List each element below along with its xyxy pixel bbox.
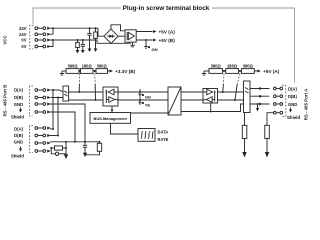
terminal 0V (1) — [35, 39, 51, 42]
junction — [52, 128, 54, 130]
terminal Shield b2 — [35, 150, 51, 153]
wire data line A iso out — [181, 91, 203, 93]
junction — [210, 111, 212, 113]
junction — [52, 27, 54, 29]
svg-text:GND: GND — [288, 102, 297, 107]
resistor R2 180R — [79, 69, 93, 74]
LED GN power — [144, 39, 150, 48]
svg-text:RS - 485 Port A: RS - 485 Port A — [304, 88, 309, 120]
wire to GND pin arrow — [259, 103, 263, 106]
wire switch leg — [78, 84, 80, 92]
junction — [57, 135, 59, 137]
ground shield port A — [265, 152, 269, 158]
wire +5V (A) termination — [254, 70, 261, 73]
junction GND chassis — [257, 103, 259, 105]
switch S2b termination A — [237, 74, 240, 85]
wire transceiver to bus management — [111, 106, 114, 112]
wire bus management to DIP — [111, 123, 139, 134]
terminal 0V (2) — [35, 45, 51, 48]
resistor R8 shield b — [55, 146, 67, 150]
svg-text:+5V (B): +5V (B) — [159, 38, 176, 43]
ground shield b — [83, 153, 87, 158]
junction — [74, 141, 76, 143]
wire D(B) group link — [57, 98, 59, 136]
terminal D(A) b1 — [35, 89, 51, 92]
wire switch leg — [235, 84, 237, 100]
transceiver U4 port A — [203, 89, 218, 104]
svg-text:390Ω: 390Ω — [211, 63, 222, 68]
svg-text:D(A): D(A) — [14, 88, 23, 93]
svg-text:+3.3V (B): +3.3V (B) — [115, 69, 136, 74]
bracket: plug-in screw terminal block callout — [33, 8, 295, 82]
terminal 24V (2) — [35, 33, 51, 36]
terminal Shield b1 — [35, 111, 51, 114]
resistor R5 180R — [223, 69, 239, 74]
wire GND group link — [65, 142, 67, 154]
terminal D(A) a — [273, 87, 282, 90]
terminal Shield a — [273, 111, 282, 114]
isolation barrier U3 — [168, 87, 181, 115]
terminal GND a — [273, 103, 282, 106]
resistor R10 earth — [242, 125, 247, 138]
svg-text:390Ω: 390Ω — [67, 63, 78, 68]
wire +5V (A) output — [136, 30, 156, 33]
terminal D(B) b1 — [35, 96, 51, 99]
wire port A data line A out — [218, 89, 270, 93]
terminal bracket port B group 1 — [30, 86, 34, 116]
svg-text:GN: GN — [145, 95, 151, 100]
junction — [94, 70, 96, 72]
svg-text:VCC: VCC — [3, 35, 8, 45]
wire data line A mid — [118, 91, 168, 93]
svg-text:+5V (A): +5V (A) — [159, 29, 176, 34]
svg-text:180Ω: 180Ω — [227, 63, 238, 68]
svg-text:24V: 24V — [19, 26, 27, 31]
svg-text:D(B): D(B) — [14, 95, 23, 100]
svg-text:BUS-Management: BUS-Management — [94, 116, 128, 121]
terminal GND b2 — [35, 142, 51, 145]
svg-text:RATE: RATE — [158, 137, 169, 142]
terminal D(B) a — [273, 95, 282, 98]
switch S1b termination B — [94, 74, 97, 85]
ground GND port A chassis — [256, 104, 259, 112]
wire port A data line B out — [218, 96, 270, 100]
svg-text:D(B): D(B) — [14, 133, 23, 138]
svg-text:DATA: DATA — [158, 129, 169, 134]
svg-text:+5V (A): +5V (A) — [263, 69, 280, 74]
wire 24V rail — [50, 28, 104, 36]
transceiver U2 port B — [103, 87, 118, 106]
svg-text:Plug-in screw terminal block: Plug-in screw terminal block — [123, 5, 210, 12]
wire +3.3V (B) — [108, 70, 114, 73]
terminal GND b1 — [35, 103, 51, 106]
junction switch drop A — [222, 91, 224, 93]
ground shield b2 glyph — [19, 147, 22, 152]
junction switch drop B — [234, 99, 236, 101]
wire shield a — [267, 113, 273, 126]
ground earth A1 — [242, 152, 246, 158]
ground shield a glyph — [289, 108, 292, 113]
wire Shield b2 — [50, 147, 55, 149]
surge protection block left — [63, 86, 69, 101]
wire to earth — [244, 139, 246, 153]
wire D(B) b2 — [50, 135, 58, 137]
wire D(A) b2 — [50, 128, 53, 130]
junction — [95, 27, 97, 29]
wire data line A — [69, 91, 103, 93]
capacitor C3 shield b — [83, 142, 87, 153]
junction — [50, 147, 52, 149]
LED YE bus — [138, 97, 144, 104]
resistor R9 gnd b — [86, 142, 102, 155]
junction — [89, 27, 91, 29]
wire switch leg — [94, 84, 96, 100]
wire bus management to port A driver — [131, 112, 168, 114]
varistor F2 — [94, 28, 98, 52]
wire GND iso out — [181, 104, 270, 112]
svg-text:0V: 0V — [21, 38, 26, 43]
surge protection block right — [244, 81, 251, 113]
resistor R3 390R — [93, 69, 108, 74]
terminal bracket port B group 2 — [30, 126, 34, 153]
wire switch drop A — [78, 91, 80, 93]
svg-text:D(B): D(B) — [288, 94, 297, 99]
wire to D(B) pin arrow — [259, 95, 263, 98]
svg-text:Shield: Shield — [11, 154, 24, 159]
svg-text:Shield: Shield — [287, 115, 300, 120]
junction — [65, 147, 67, 149]
junction D(A) link — [52, 89, 54, 91]
svg-text:YE: YE — [145, 103, 151, 108]
DC/DC converter U1 — [125, 30, 136, 42]
svg-text:390Ω: 390Ω — [243, 63, 254, 68]
wire data line B iso out — [181, 99, 203, 101]
wire GND b1 rail — [50, 104, 85, 142]
svg-text:180Ω: 180Ω — [82, 63, 93, 68]
junction — [239, 70, 241, 72]
ground shield b1 glyph — [19, 108, 22, 113]
svg-text:D(A): D(A) — [14, 127, 23, 132]
switch S1a termination B — [78, 74, 80, 85]
wire bridge right output — [118, 35, 125, 37]
resistor R7 shield — [265, 125, 270, 152]
svg-text:GND: GND — [14, 140, 23, 145]
wire D(B) b1 to protection — [51, 98, 66, 100]
terminal bracket VCC group — [30, 25, 34, 49]
junction — [99, 141, 101, 143]
wire protection block earth — [244, 113, 246, 126]
svg-text:GND: GND — [14, 102, 23, 107]
terminal 24V (1) — [35, 27, 51, 30]
junction — [52, 39, 54, 41]
svg-text:GN: GN — [152, 47, 158, 52]
wire +5V (B) output — [136, 39, 156, 42]
wire D(A) group link — [52, 90, 54, 129]
junction D(B) link — [57, 97, 59, 99]
svg-text:D(A): D(A) — [288, 86, 297, 91]
resistor R4 390R — [204, 69, 223, 74]
capacitor C1 — [81, 40, 85, 53]
junction — [65, 141, 67, 143]
wire to D(A) pin arrow — [259, 87, 263, 90]
switch S2a termination A — [222, 74, 225, 85]
wire data line B mid — [118, 99, 168, 101]
terminal D(A) b2 — [35, 127, 51, 130]
terminal bracket port A — [282, 85, 286, 116]
wire data line B — [69, 99, 103, 101]
ground right termination — [202, 71, 206, 75]
junction — [223, 70, 225, 72]
svg-text:390Ω: 390Ω — [97, 63, 108, 68]
varistor F1 on 0V rail — [76, 40, 80, 53]
junction — [77, 39, 79, 41]
wire Shield b1 — [50, 112, 75, 142]
wire 0V(2) join — [50, 40, 53, 47]
svg-text:0V: 0V — [21, 44, 26, 49]
bus management unit — [90, 113, 131, 124]
LED GN bus — [138, 89, 144, 96]
wire D(A) b1 to protection — [51, 90, 64, 92]
junction — [82, 39, 84, 41]
wire GND b2 rail — [50, 141, 100, 143]
wire switch drop B — [95, 99, 97, 101]
wire 0V rail — [50, 40, 130, 43]
wire bridge top output — [111, 25, 125, 31]
wire 24V(2) join — [50, 28, 53, 34]
capacitor C2 — [87, 28, 91, 52]
ground DC/DC — [130, 42, 135, 47]
resistor R1 390R — [62, 69, 79, 74]
junction — [79, 70, 81, 72]
ground left termination — [60, 71, 64, 75]
wire to transceiver A enable — [210, 103, 212, 112]
svg-text:Shield: Shield — [11, 115, 24, 120]
capacitor C4 shield parallel — [51, 148, 66, 156]
ground GND b — [64, 154, 68, 159]
svg-text:24V: 24V — [19, 32, 27, 37]
terminal D(B) b2 — [35, 134, 51, 137]
svg-text:RS - 485 Port B: RS - 485 Port B — [3, 85, 8, 117]
wire switch leg — [222, 84, 225, 92]
resistor R6 390R — [239, 69, 255, 74]
bridge rectifier D1 — [104, 29, 118, 43]
DIP switch data rate — [138, 129, 155, 142]
